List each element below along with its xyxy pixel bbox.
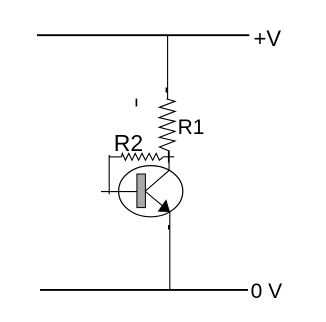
transistor Q1 emitter stroke — [145, 192, 169, 212]
wire: +V top supply rail — [37, 34, 249, 36]
svg-text:+V: +V — [254, 26, 282, 51]
resistor R2 (zigzag) — [122, 153, 164, 160]
svg-text:R2: R2 — [114, 130, 143, 156]
transistor Q1 base bar — [137, 174, 146, 208]
tick mark on collector supply wire — [165, 88, 167, 93]
svg-text:0 V: 0 V — [251, 280, 283, 303]
wire: R2 left lead vertical drop to base wire — [108, 155, 110, 194]
wire: R2 right lead overshoot crossing R1 lead — [163, 156, 174, 158]
svg-text:R1: R1 — [178, 116, 205, 139]
wire: base lead — [101, 191, 137, 193]
wire: from +V rail down to R1 top — [167, 35, 169, 99]
resistor R1 (zigzag) — [159, 99, 175, 151]
wire: 0V bottom rail — [40, 289, 248, 291]
tick mark on emitter wire — [168, 225, 170, 230]
wire: R1 bottom lead crossing R2 lead (plus junction), to collector — [168, 150, 170, 162]
label i (current mark) — [136, 99, 138, 107]
wire: emitter down to 0V rail — [169, 212, 171, 290]
transistor Q1 emitter arrow — [158, 199, 170, 212]
transistor Q1 collector stroke — [145, 170, 169, 191]
wire: R2 left lead horizontal — [109, 156, 122, 158]
transistor Q1 body circle — [119, 166, 183, 217]
